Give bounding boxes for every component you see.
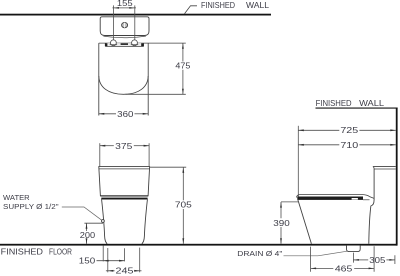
water supply leader (62, 207, 102, 220)
svg-text:375: 375 (115, 141, 132, 151)
finished floor line (0, 244, 397, 246)
dim 305 (353, 259, 368, 261)
bolt dome left (111, 40, 117, 46)
dim 705 (182, 167, 184, 200)
svg-text:FINISHED: FINISHED (1, 247, 43, 256)
tank bottom second line (103, 36, 145, 38)
svg-text:390: 390 (273, 218, 290, 228)
wall leader (185, 6, 198, 14)
svg-text:SUPPLY Ø 1/2": SUPPLY Ø 1/2" (3, 202, 59, 211)
seat lines (front) (100, 195, 148, 197)
svg-text:DRAIN Ø 4": DRAIN Ø 4" (237, 249, 282, 258)
svg-text:725: 725 (340, 125, 358, 135)
dim 360 (99, 113, 116, 115)
svg-text:FLOOR: FLOOR (49, 247, 72, 256)
wall line (right) (396, 108, 398, 246)
dim 710 (298, 144, 339, 146)
svg-text:FINISHED: FINISHED (201, 1, 235, 10)
svg-text:305: 305 (369, 255, 385, 265)
below-floor extension lines (102, 246, 104, 262)
hinge band (105, 43, 143, 46)
svg-text:155: 155 (117, 0, 133, 8)
svg-text:150: 150 (79, 256, 96, 266)
hinge band top line + 475 top reference (99, 42, 186, 44)
DRAIN label leader (284, 251, 348, 256)
svg-text:FINISHED: FINISHED (316, 99, 352, 108)
tank (front) (99, 167, 150, 196)
bowl outline (plan) (98, 43, 100, 115)
475 bottom reference (126, 93, 186, 95)
drain (side) (347, 246, 361, 252)
dim 390 (281, 201, 298, 203)
svg-text:245: 245 (116, 266, 134, 276)
tank (side) (373, 166, 396, 168)
dim 155 (112, 7, 136, 9)
dim 375 (100, 145, 114, 147)
seat cover top (side) (296, 195, 374, 199)
svg-text:WALL: WALL (359, 99, 384, 108)
dim 245 (106, 270, 115, 272)
375 extension lines (99, 143, 101, 166)
bolt dome right (132, 40, 138, 46)
bowl front slope (side) (298, 200, 312, 244)
water supply fitting (102, 220, 105, 223)
dim 475 (182, 43, 184, 61)
dim 725 (298, 129, 339, 131)
svg-text:360: 360 (117, 109, 133, 119)
dim 200 (84, 222, 103, 224)
seat thick bar (side) (297, 197, 363, 200)
svg-text:705: 705 (175, 200, 192, 210)
extension lines below floor (side) (310, 247, 312, 272)
svg-text:465: 465 (335, 263, 353, 273)
finished wall line (top) (0, 14, 271, 16)
flush button (122, 22, 128, 27)
svg-text:WALL: WALL (246, 1, 269, 10)
svg-text:710: 710 (340, 140, 358, 150)
dim 465 (311, 267, 334, 269)
svg-text:200: 200 (80, 230, 96, 240)
705 top reference (150, 166, 187, 168)
tank (top view) (100, 17, 149, 36)
svg-text:475: 475 (175, 61, 190, 71)
dim 150 (97, 260, 125, 262)
725/710 extension line (297, 126, 299, 199)
pedestal (102, 200, 148, 244)
155 extension lines (113, 5, 115, 39)
